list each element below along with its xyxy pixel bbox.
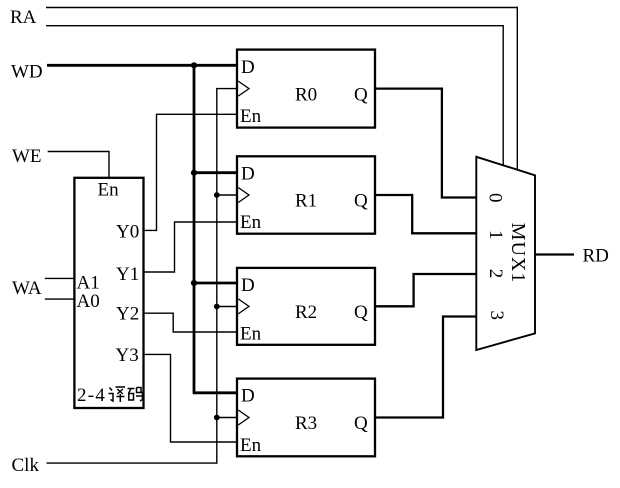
svg-text:D: D xyxy=(241,275,255,296)
svg-text:R1: R1 xyxy=(295,191,317,212)
wire WD branch to R1 D xyxy=(193,171,238,174)
decoder name glyph yi4 译 xyxy=(109,387,126,402)
svg-text:A0: A0 xyxy=(77,291,100,312)
svg-text:RD: RD xyxy=(583,246,609,267)
wire Clk horizontal xyxy=(47,462,217,464)
junction Clk-R1 xyxy=(214,192,220,198)
svg-text:R2: R2 xyxy=(295,302,317,323)
junction WD-R1 xyxy=(191,170,197,176)
junction Clk-R2 xyxy=(214,304,220,310)
svg-text:3: 3 xyxy=(486,310,507,320)
svg-text:MUX1: MUX1 xyxy=(507,223,529,284)
wire RA bit0 vertical to MUX select xyxy=(502,25,504,166)
svg-text:Q: Q xyxy=(354,413,368,434)
svg-text:2: 2 xyxy=(485,269,506,279)
svg-text:Clk: Clk xyxy=(12,455,40,476)
wire R1 Q to MUX input 1 xyxy=(375,195,476,233)
svg-text:Q: Q xyxy=(354,302,368,323)
wire WD horizontal to R0 D xyxy=(47,64,238,67)
svg-text:Q: Q xyxy=(354,84,368,105)
wire Y3 to R3 En xyxy=(144,354,239,442)
svg-text:En: En xyxy=(240,323,262,344)
svg-text:En: En xyxy=(98,179,120,200)
register R1 clock triangle xyxy=(238,188,249,203)
svg-text:WA: WA xyxy=(12,278,42,299)
svg-text:WD: WD xyxy=(11,62,43,83)
svg-text:Y0: Y0 xyxy=(116,222,139,243)
register R0 box xyxy=(237,50,375,128)
register R2 box xyxy=(237,268,375,345)
svg-text:En: En xyxy=(240,106,262,127)
register R3 box xyxy=(237,379,375,457)
svg-text:D: D xyxy=(241,386,255,407)
wire RD output xyxy=(535,253,574,255)
wire Clk branch to R2 clock xyxy=(216,306,238,308)
svg-text:Y2: Y2 xyxy=(116,304,139,325)
svg-text:1: 1 xyxy=(485,230,506,240)
wire R3 Q to MUX input 3 xyxy=(375,317,476,418)
svg-text:0: 0 xyxy=(485,193,506,203)
svg-text:WE: WE xyxy=(12,146,42,167)
wire RA bit1 horizontal xyxy=(46,7,517,9)
svg-text:Y3: Y3 xyxy=(116,345,139,366)
register R3 clock triangle xyxy=(238,410,249,425)
wire Clk branch to R3 clock xyxy=(216,417,238,419)
register R1 box xyxy=(237,156,375,233)
svg-text:R3: R3 xyxy=(295,413,317,434)
wire Y0 to R0 En xyxy=(144,114,239,230)
wire Y2 to R2 En xyxy=(144,313,239,332)
register R2 clock triangle xyxy=(238,299,249,314)
svg-text:2-4: 2-4 xyxy=(77,385,106,406)
wire WD branch to R2 D xyxy=(193,282,238,285)
decoder name glyph ma3 码 xyxy=(128,388,143,402)
wire WA bit A0 xyxy=(45,298,75,300)
wire WA bit A1 xyxy=(45,277,75,279)
wire RA bit0 horizontal xyxy=(46,25,503,27)
svg-text:Q: Q xyxy=(354,191,368,212)
svg-text:R0: R0 xyxy=(295,84,317,105)
svg-text:En: En xyxy=(240,212,262,233)
wire R0 Q to MUX input 0 xyxy=(375,89,476,198)
wire Clk branch to R0 clock xyxy=(216,88,238,90)
svg-text:Y1: Y1 xyxy=(116,264,139,285)
wire WD vertical bus xyxy=(193,65,196,393)
svg-text:D: D xyxy=(241,57,255,78)
register R0 clock triangle xyxy=(238,81,249,96)
wire RA bit1 vertical to MUX select xyxy=(516,7,518,171)
decoder U1 2-4 box xyxy=(74,178,143,408)
wire R2 Q to MUX input 2 xyxy=(375,274,476,306)
wire WE xyxy=(48,152,109,178)
mux MUX1 trapezoid body xyxy=(476,157,535,350)
wire Clk vertical bus xyxy=(216,89,218,464)
svg-text:En: En xyxy=(240,435,262,456)
junction WD-R2 xyxy=(191,280,197,286)
wire Clk branch to R1 clock xyxy=(216,194,238,196)
junction Clk-R3 xyxy=(214,415,220,421)
wire Y1 to R1 En xyxy=(144,222,239,272)
junction WD-R0 xyxy=(191,62,197,68)
wire WD branch to R3 D xyxy=(193,391,238,394)
svg-text:RA: RA xyxy=(10,7,37,28)
svg-text:D: D xyxy=(241,164,255,185)
